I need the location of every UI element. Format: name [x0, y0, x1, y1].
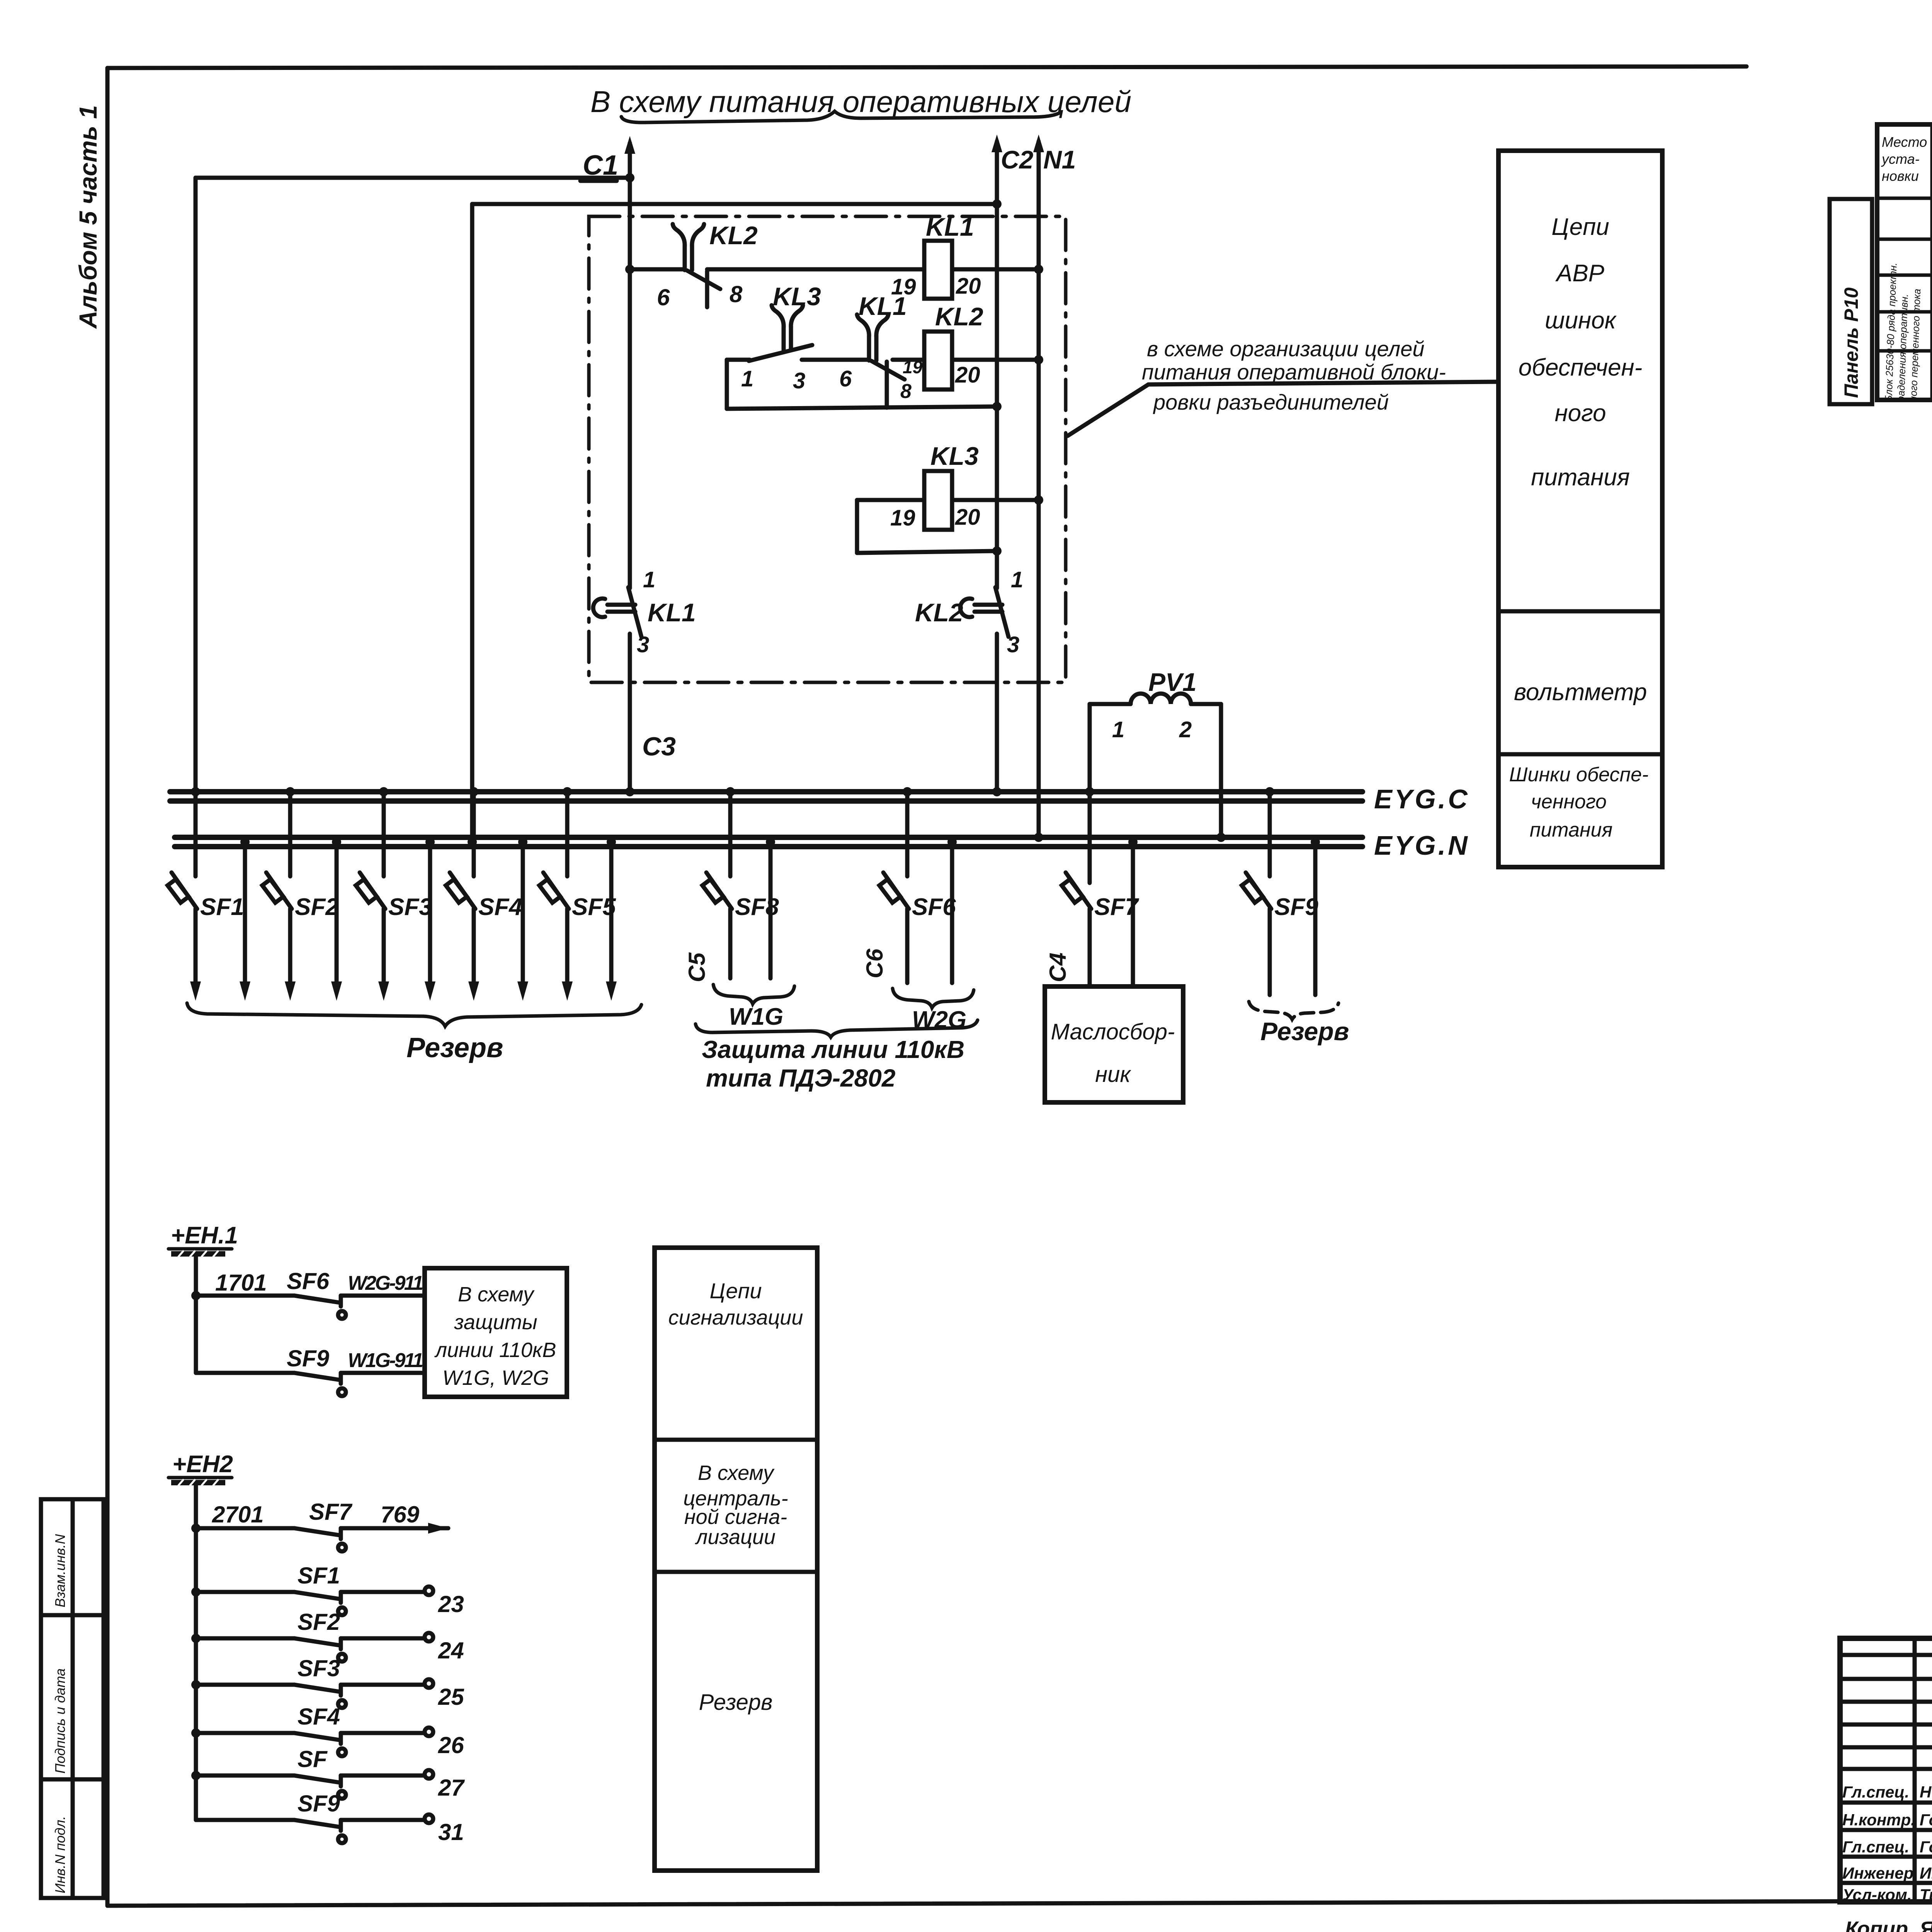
bus EYG.C bottom line [170, 798, 1362, 804]
bracket line protection group [696, 1020, 978, 1037]
title block left column line 1 [1913, 1638, 1917, 1902]
svg-text:W1G, W2G: W1G, W2G [442, 1366, 549, 1389]
arrow down partner 3 [425, 981, 435, 1001]
svg-text:KL3: KL3 [930, 442, 979, 470]
svg-text:C4: C4 [1045, 952, 1071, 982]
svg-text:АВР: АВР [1555, 260, 1604, 287]
svg-text:KL2: KL2 [935, 302, 983, 331]
svg-text:SF3: SF3 [298, 1655, 340, 1681]
svg-text:ченного: ченного [1531, 791, 1607, 813]
rung 1 wire right [952, 267, 1039, 272]
breaker SF2 [262, 872, 292, 909]
switch SF4 row blade [294, 1733, 346, 1756]
wire row SF9 right [341, 1371, 425, 1375]
margin stamp table divider row2 [41, 1777, 104, 1782]
switch SF9 row blade [294, 1373, 346, 1396]
svg-text:8: 8 [900, 380, 912, 403]
wire row SF6 right [341, 1294, 425, 1298]
annotation underline to info box [1148, 382, 1498, 384]
switch SF row blade [294, 1776, 346, 1799]
+EH2 underline [168, 1476, 232, 1480]
panel note rotated scribble [1883, 262, 1923, 402]
svg-text:Маслосбор-: Маслосбор- [1051, 1019, 1175, 1044]
wire +EH.1 riser [194, 1257, 198, 1373]
svg-text:Иванова: Иванова [1920, 1864, 1932, 1882]
svg-text:24: 24 [438, 1638, 464, 1663]
drawing frame left edge [105, 68, 110, 1906]
wire PV1 left leg down [1088, 704, 1092, 883]
wire drop SF3 lower [382, 909, 386, 992]
svg-text:Горелик: Горелик [1920, 1811, 1932, 1829]
terminal circle 25 [425, 1679, 433, 1688]
svg-text:2701: 2701 [212, 1502, 264, 1527]
equipment table row line 1 [1877, 197, 1932, 200]
node dot row SF4 [191, 1728, 201, 1738]
margin stamp table divider row1 [41, 1613, 104, 1617]
info box text: secured buses [1509, 764, 1649, 841]
svg-text:Инженер: Инженер [1842, 1864, 1913, 1882]
node dot row SF3 [191, 1680, 201, 1689]
node dot W2G partner at EYG.N [947, 837, 957, 847]
info box divider 2 [1498, 752, 1662, 757]
equipment table row line 3 [1877, 274, 1932, 277]
title block thin row 1 [1840, 1653, 1932, 1657]
svg-text:Горелик: Горелик [1920, 1838, 1932, 1856]
wire +EH2 riser [194, 1485, 198, 1820]
svg-text:вольтметр: вольтметр [1514, 679, 1647, 706]
equipment table row line 2 [1877, 238, 1932, 241]
node dot partner 5 at EYG.N [607, 837, 616, 847]
svg-text:+EH2: +EH2 [172, 1451, 233, 1478]
svg-text:N1: N1 [1043, 145, 1076, 174]
wire PV1 right leg down to EYG.N [1219, 704, 1223, 837]
node dot drop at EYG.N [468, 837, 477, 847]
svg-text:C2: C2 [1001, 145, 1034, 174]
wire drop SF6 upper [905, 792, 910, 876]
node dot partner 2 at EYG.N [332, 837, 341, 847]
wire drop SF6 lower [905, 909, 910, 983]
node dot SF6 at EYG.C [903, 787, 912, 796]
info box right tall [1498, 151, 1662, 867]
wire row SF3 left [196, 1683, 294, 1687]
arrow down SF3 [378, 981, 389, 1001]
wire reserve partner 2 [335, 837, 339, 992]
svg-text:обеспечен-: обеспечен- [1519, 354, 1643, 381]
wire W1G partner [769, 837, 773, 978]
svg-text:W1G-911: W1G-911 [348, 1349, 423, 1372]
node dot SF9 at EYG.C [1265, 787, 1274, 796]
switch SF2 row blade [294, 1638, 346, 1662]
panel enclosure dash-dot box [589, 216, 1066, 682]
breaker SF9 [1242, 872, 1271, 909]
signal box text: central signalling [683, 1461, 788, 1549]
equipment table row line 5 [1877, 349, 1932, 353]
drawing frame bottom edge [107, 1899, 1932, 1906]
svg-text:питания: питания [1530, 819, 1613, 841]
svg-text:KL2: KL2 [915, 598, 963, 627]
svg-text:питания оперативной блоки-: питания оперативной блоки- [1142, 360, 1446, 384]
node dot SF4 at EYG.C [469, 787, 478, 796]
breaker SF4 [446, 872, 475, 909]
svg-text:новки: новки [1882, 168, 1919, 184]
relay coil KL1 [924, 241, 952, 299]
wire drop SF8 lower [728, 909, 733, 978]
wire drop SF4 lower [472, 909, 476, 992]
wire drop SF4 upper [472, 792, 476, 876]
svg-text:Взам.инв.N: Взам.инв.N [52, 1534, 68, 1607]
switch SF1 row blade [294, 1592, 346, 1615]
svg-text:Резерв: Резерв [699, 1690, 773, 1715]
oil collector box [1045, 986, 1183, 1102]
wire reserve partner 3 [428, 837, 432, 992]
node dot row 1701 [191, 1291, 201, 1300]
wire row SF right [341, 1774, 424, 1778]
svg-text:20: 20 [956, 274, 981, 299]
rung 2 wire right [952, 358, 1039, 362]
svg-text:ного: ного [1555, 400, 1606, 427]
svg-text:Усл-ком.: Усл-ком. [1842, 1886, 1912, 1904]
svg-text:SF4: SF4 [298, 1704, 340, 1730]
rung 3 bottom rail [857, 551, 997, 553]
dashed brace reserve right [1249, 1002, 1338, 1019]
svg-text:769: 769 [381, 1502, 420, 1527]
svg-text:сигнализации: сигнализации [668, 1306, 803, 1329]
rung 3 wire right [952, 498, 1039, 502]
svg-text:SF9: SF9 [1274, 894, 1318, 920]
signature row 3 texts [1842, 1838, 1932, 1856]
node dot SF1 at EYG.C [191, 787, 200, 796]
brace W1G [713, 985, 794, 1004]
svg-text:20: 20 [955, 505, 980, 530]
title underbrace [621, 111, 1060, 122]
node dot rung1 at N1 [1034, 265, 1043, 274]
wire drop SF5 upper [565, 792, 570, 876]
wire drop SF1 lower [194, 909, 198, 992]
svg-text:Копир. Явод-: Копир. Явод- [1845, 1917, 1932, 1932]
arrow down SF1 [190, 981, 201, 1001]
wire drop SF1 upper [194, 792, 198, 876]
node dot rail3 at C2 [992, 546, 1002, 556]
breaker SF6 [879, 872, 909, 909]
arrow up on C1 [624, 136, 635, 154]
terminal circle 24 [425, 1633, 433, 1641]
node dot partner 1 at EYG.N [240, 837, 250, 847]
+EH2 supply bar [171, 1480, 225, 1485]
node dot rail at C2 [992, 402, 1002, 411]
svg-text:SF6: SF6 [912, 894, 956, 920]
equipment table outline [1877, 124, 1932, 400]
title block outline [1840, 1638, 1932, 1902]
title block signature row line 1 [1840, 1801, 1932, 1805]
wire riser C2 [995, 141, 999, 588]
breaker SF1 [168, 872, 197, 909]
svg-text:типа ПДЭ-2802: типа ПДЭ-2802 [706, 1064, 895, 1092]
wire row SF2 left [196, 1636, 294, 1641]
svg-text:Место: Место [1882, 134, 1927, 150]
wire reserve partner 4 [521, 837, 525, 992]
title block thin row 3 [1840, 1700, 1932, 1704]
wire row SF9 right [341, 1818, 424, 1822]
svg-text:SF1: SF1 [200, 894, 244, 920]
svg-text:KL3: KL3 [773, 282, 821, 311]
wire riser C1 lower part C3 [628, 634, 632, 792]
relay coil KL3 [924, 471, 952, 530]
terminal circle 23 [425, 1587, 433, 1595]
arrow down SF4 [468, 981, 479, 1001]
svg-text:1: 1 [643, 567, 655, 592]
svg-text:1: 1 [741, 366, 753, 391]
wire drop SF5 lower [565, 909, 570, 992]
svg-text:20: 20 [955, 362, 980, 388]
signal info box [655, 1248, 817, 1871]
node dot partner 3 at EYG.N [425, 837, 435, 847]
svg-text:Инв.N подл.: Инв.N подл. [52, 1816, 68, 1893]
svg-text:1701: 1701 [215, 1270, 267, 1296]
wire row SF4 left [196, 1731, 294, 1735]
wire reserve right partner [1313, 837, 1318, 995]
wire left drop to bus EYG.C [194, 178, 198, 792]
svg-text:Гл.спец.: Гл.спец. [1842, 1838, 1909, 1856]
svg-text:В схему питания оперативных це: В схему питания оперативных целей [590, 85, 1131, 119]
svg-text:C3: C3 [642, 732, 676, 761]
node C1 label underline [580, 179, 617, 183]
node dot reserve right partner [1311, 837, 1320, 847]
terminal circle 31 [425, 1815, 433, 1823]
terminal circle 26 [425, 1728, 433, 1736]
voltmeter PV1 coil top wire left [1090, 702, 1131, 706]
wire drop to bus EYG.N [470, 204, 474, 837]
svg-text:C6: C6 [862, 949, 888, 978]
svg-text:ровки разъединителей: ровки разъединителей [1153, 390, 1389, 414]
wire drop SF9 upper [1268, 792, 1272, 876]
+EH.1 supply bar [171, 1251, 225, 1257]
svg-text:SF: SF [298, 1746, 328, 1772]
svg-text:EYG.C: EYG.C [1374, 784, 1470, 814]
node dot PV1 right at EYG.N [1216, 833, 1226, 842]
svg-text:Резерв: Резерв [406, 1032, 503, 1063]
title block signature row line 2 [1840, 1828, 1932, 1832]
node dot C1 junction [625, 173, 634, 182]
wire row SF3 right [341, 1683, 424, 1687]
node dot row SF [191, 1771, 201, 1780]
arrow up on N1 [1033, 134, 1044, 152]
signal box text: circuits of signalling [668, 1279, 803, 1329]
arrow down SF5 [562, 981, 573, 1001]
node dot partner 4 at EYG.N [518, 837, 527, 847]
terminal circle 27 [425, 1770, 433, 1779]
svg-text:3: 3 [1007, 632, 1019, 657]
margin stamp table [41, 1499, 104, 1898]
wire W2G partner [950, 837, 954, 983]
svg-text:Панель Р10: Панель Р10 [1840, 287, 1862, 398]
breaker SF7 [1062, 872, 1091, 909]
breaker SF3 [356, 872, 385, 909]
rung 2 wire into coil [893, 358, 924, 362]
bus EYG.N top line [175, 835, 1362, 840]
svg-text:Тимофеева: Тимофеева [1920, 1886, 1932, 1904]
wire row SF7 left [196, 1526, 294, 1531]
title block thin row 4 [1840, 1723, 1932, 1727]
node dot rung3 at N1 [1034, 495, 1043, 505]
arrow right row 769 [428, 1523, 448, 1534]
rung 3 wire left of coil [857, 498, 924, 502]
wire row SF4 right [341, 1731, 424, 1735]
wire drop SF9 lower [1268, 909, 1272, 995]
svg-text:SF9: SF9 [298, 1791, 340, 1816]
svg-text:лизации: лизации [695, 1526, 776, 1549]
wire oil collector partner [1131, 837, 1135, 986]
rung 1 wire left [630, 267, 685, 272]
svg-text:в схеме организации целей: в схеме организации целей [1147, 337, 1425, 361]
svg-text:25: 25 [438, 1684, 464, 1710]
signature row 5 texts [1842, 1886, 1932, 1904]
contact KL2 break (on C2 riser) [960, 587, 1009, 637]
svg-text:Защита линии 110кВ: Защита линии 110кВ [702, 1036, 964, 1063]
wire row SF9 left [196, 1371, 294, 1375]
svg-text:23: 23 [438, 1591, 464, 1617]
equipment table row line 4 [1877, 310, 1932, 314]
signature row 2 texts [1842, 1811, 1932, 1829]
node dot rung1 at C1 [625, 265, 634, 274]
svg-text:KL1: KL1 [926, 213, 974, 241]
switch SF3 row blade [294, 1685, 346, 1708]
svg-text:8: 8 [730, 281, 743, 307]
svg-text:W1G: W1G [729, 1003, 783, 1030]
svg-text:SF6: SF6 [287, 1268, 330, 1294]
wire row SF1 left [196, 1590, 294, 1594]
brace reserve group [187, 1003, 641, 1026]
svg-text:В схему: В схему [698, 1461, 775, 1485]
equipment table column line 1 [1930, 124, 1932, 400]
svg-text:SF4: SF4 [478, 894, 522, 920]
svg-text:ной сигна-: ной сигна- [684, 1505, 787, 1529]
signal info box divider 2 [655, 1570, 817, 1574]
contact KL1 break (on C1 riser) [593, 587, 641, 637]
node dot C2 at EYG.C [992, 787, 1002, 796]
wire row SF6 left [196, 1294, 294, 1298]
rung 2 wire middle [802, 358, 868, 362]
svg-text:SF2: SF2 [295, 894, 339, 920]
svg-text:Никитин: Никитин [1920, 1783, 1932, 1801]
wire riser N1 [1037, 141, 1041, 837]
svg-text:3: 3 [793, 368, 805, 393]
node dot SF2 at EYG.C [286, 787, 295, 796]
margin stamp table divider vertical [71, 1499, 75, 1898]
node dot C2 junction [992, 199, 1002, 209]
rung 3 left drop [855, 500, 859, 553]
wire row SF left [196, 1774, 294, 1778]
svg-text:ник: ник [1095, 1062, 1131, 1087]
wire row SF9 left [196, 1818, 294, 1822]
signal info box divider 1 [655, 1438, 817, 1442]
svg-text:PV1: PV1 [1148, 668, 1197, 696]
node dot row SF1 [191, 1587, 201, 1597]
svg-text:19: 19 [903, 357, 923, 377]
node dot row SF2 [191, 1634, 201, 1643]
wire row 769 right [341, 1526, 448, 1531]
svg-text:+EH.1: +EH.1 [171, 1222, 238, 1249]
wire riser C2 lower part [995, 634, 999, 792]
info box divider 1 [1498, 609, 1662, 614]
wire horizontal to C2 [472, 202, 997, 206]
svg-text:1: 1 [1011, 567, 1023, 592]
breaker SF8 [702, 872, 732, 909]
svg-text:27: 27 [438, 1775, 465, 1801]
arrow down partner 5 [606, 981, 617, 1001]
svg-text:31: 31 [438, 1819, 464, 1845]
brace W2G [893, 988, 974, 1008]
svg-text:2: 2 [1179, 717, 1192, 742]
contact KL3 time-delay NO (rung 2) [749, 305, 812, 361]
contact KL2 time-delay NC (rung 1) [673, 224, 720, 307]
wire SF7 lower (from PV1 leg) [1088, 909, 1092, 986]
wire row SF1 right [341, 1590, 424, 1594]
wire drop SF2 lower [288, 909, 293, 992]
rung 2 wire left [727, 358, 750, 362]
svg-text:KL1: KL1 [648, 598, 696, 627]
node dot row SF7 [191, 1524, 201, 1533]
wire reserve partner 5 [609, 837, 614, 992]
node dot SF5 at EYG.C [563, 787, 572, 796]
svg-text:Резерв: Резерв [1260, 1017, 1349, 1046]
title block thin row 5 [1840, 1745, 1932, 1750]
svg-text:Цепи: Цепи [709, 1279, 762, 1303]
svg-text:EYG.N: EYG.N [1374, 830, 1470, 861]
svg-text:Цепи: Цепи [1551, 214, 1609, 240]
svg-text:KL2: KL2 [709, 221, 758, 250]
arrow down partner 1 [240, 981, 250, 1001]
node dot PV1 left at EYG.C [1085, 787, 1094, 796]
voltmeter PV1 coil bumps [1131, 694, 1191, 704]
switch SF9 row blade [294, 1820, 346, 1843]
node dot partner at EYG.N [1128, 837, 1138, 847]
svg-text:питания: питания [1531, 464, 1630, 491]
switch SF7 row blade [294, 1528, 346, 1551]
svg-text:Шинки обеспе-: Шинки обеспе- [1509, 764, 1649, 786]
title block thin row 2 [1840, 1677, 1932, 1681]
svg-text:В схему: В схему [458, 1283, 535, 1306]
info box text: circuits AVR [1519, 214, 1643, 491]
wire reserve partner 1 [243, 837, 247, 992]
svg-text:Н.контр.: Н.контр. [1842, 1811, 1915, 1829]
svg-text:защиты: защиты [454, 1311, 537, 1334]
svg-text:линии 110кВ: линии 110кВ [434, 1338, 556, 1362]
svg-text:Подпись и дата: Подпись и дата [52, 1668, 68, 1774]
svg-text:W2G-911: W2G-911 [348, 1272, 423, 1294]
relay coil KL2 [924, 332, 952, 389]
contact KL1 time-delay NC (rung 2) [857, 315, 905, 408]
svg-text:1: 1 [1112, 717, 1124, 742]
svg-text:SF9: SF9 [287, 1345, 330, 1371]
annotation leader diagonal [1068, 384, 1148, 436]
node dot SF8 at EYG.C [726, 787, 735, 796]
svg-text:SF7: SF7 [309, 1499, 353, 1525]
arrow up on C2 [992, 134, 1002, 152]
svg-text:C5: C5 [684, 952, 710, 982]
bus EYG.N bottom line [175, 844, 1362, 849]
svg-text:SF1: SF1 [298, 1563, 340, 1588]
destination box 110kV protection [425, 1268, 567, 1397]
signature row 1 texts [1842, 1783, 1932, 1801]
arrow down SF2 [285, 981, 296, 1001]
svg-text:KL1: KL1 [859, 292, 907, 320]
voltmeter PV1 coil top wire right [1191, 702, 1221, 706]
wire drop SF8 upper [728, 792, 733, 876]
node dot SF3 at EYG.C [379, 787, 388, 796]
wire drop SF3 upper [382, 792, 386, 876]
title block signature row line 4 [1840, 1881, 1932, 1885]
switch SF6 row blade [294, 1296, 346, 1319]
